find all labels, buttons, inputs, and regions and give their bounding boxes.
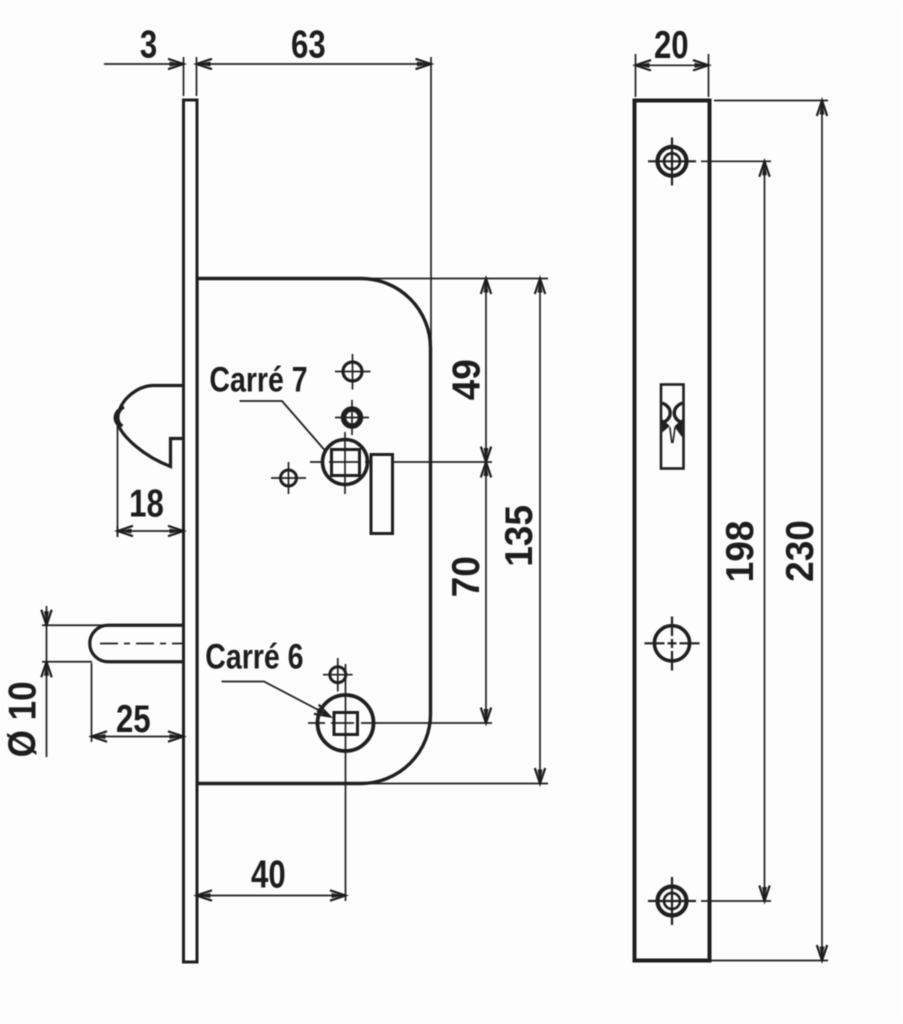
dimension 40	[197, 895, 346, 897]
svg-text:198: 198	[719, 521, 762, 583]
dim 18 arrows	[118, 526, 134, 536]
extension line bottom right (body bottom edge extended)	[362, 783, 548, 785]
upper follower horizontal centerline	[310, 461, 492, 463]
dimension 63	[430, 57, 432, 350]
screw hole bottom inner circle	[664, 893, 680, 909]
lower follower square hole	[334, 713, 358, 735]
svg-text:25: 25	[116, 698, 151, 741]
screw hole bottom crosshair	[671, 877, 673, 925]
round deadbolt (side view)	[90, 625, 184, 662]
bolt guide rectangle	[371, 455, 393, 534]
dimension 18	[117, 526, 119, 537]
svg-text:135: 135	[498, 505, 541, 567]
svg-text:20: 20	[654, 24, 689, 67]
screw hole middle crosshair	[671, 617, 673, 671]
dim 49 arrows	[481, 279, 491, 295]
lock body	[197, 279, 431, 784]
fixing hole top cross	[352, 354, 354, 390]
dimension 198	[701, 160, 771, 162]
dimension 3	[183, 57, 185, 96]
dimension 135 line	[539, 279, 541, 784]
faceplate (front view)	[635, 101, 710, 961]
leader line Carre 7	[240, 401, 326, 451]
svg-text:18: 18	[129, 482, 164, 525]
leader line Carre 6	[222, 682, 327, 715]
RIGHT VIEW	[635, 54, 829, 961]
dim 40 arrows	[197, 890, 213, 900]
svg-text:3: 3	[140, 23, 157, 66]
fixing hole middle circle	[344, 409, 361, 426]
dimension 230	[714, 100, 828, 102]
dim 10 arrows (outside)	[41, 610, 51, 626]
screw hole top inner circle	[664, 153, 680, 169]
fixing hole top circle	[343, 362, 362, 381]
fixing hole left circle	[281, 470, 297, 486]
latch cutout left crescent	[662, 403, 670, 423]
dim 63 right arrow	[416, 59, 432, 69]
fixing hole left cross	[288, 462, 290, 494]
deadbolt centerline	[100, 643, 192, 645]
svg-text:Carré 7: Carré 7	[209, 360, 307, 399]
screw hole bottom outer circle	[658, 887, 687, 916]
dimension 49 and 70 line	[485, 279, 487, 724]
svg-text:70: 70	[445, 556, 488, 597]
latch bolt (side view)	[115, 386, 184, 467]
svg-text:230: 230	[779, 520, 822, 582]
dimension 20	[635, 54, 637, 97]
lower follower vertical centerline + extension to 40 dim	[345, 664, 347, 901]
extension line top right (body top edge extended)	[362, 278, 548, 280]
latch nose inner arc	[118, 407, 124, 426]
latch cutout funnel right line	[673, 428, 675, 444]
svg-text:49: 49	[446, 359, 489, 400]
lower follower circle (Carre 6)	[318, 695, 374, 751]
upper follower circle (Carre 7)	[323, 440, 368, 485]
dim 70 arrows	[481, 462, 491, 478]
dim 198 arrows	[759, 161, 769, 177]
dim 230 arrows	[817, 101, 827, 117]
latch cutout right wedge	[674, 419, 682, 438]
svg-text:40: 40	[251, 853, 286, 896]
faceplate (side view)	[184, 100, 198, 962]
leader Carre 6 arrowhead	[314, 705, 333, 721]
dim 135 arrows	[535, 279, 545, 295]
small hole above lower follower cross	[337, 658, 339, 692]
latch cutout left wedge	[662, 419, 670, 433]
svg-text:Carré 6: Carré 6	[205, 637, 303, 676]
dim 20 arrows	[636, 60, 652, 70]
dimension 10 (diameter)	[42, 624, 105, 626]
upper follower vertical centerline	[344, 432, 346, 494]
dim 3 arrows	[168, 59, 184, 69]
arrowheads	[41, 59, 545, 901]
svg-text:63: 63	[291, 23, 326, 66]
dim 25 arrows	[92, 731, 108, 741]
svg-text:Ø 10: Ø 10	[0, 681, 44, 757]
latch cutout funnel left line	[670, 427, 672, 443]
dimension 25	[91, 663, 93, 742]
lower follower horizontal centerline	[308, 722, 492, 724]
upper follower square hole	[332, 450, 360, 476]
latch cutout right crescent	[674, 403, 682, 423]
screw hole middle circle	[654, 626, 689, 661]
fixing hole middle cross	[351, 400, 353, 435]
latch nose extension line	[117, 424, 119, 537]
screw hole top outer circle	[658, 147, 687, 176]
latch cutout rectangle	[661, 385, 684, 469]
screw hole top crosshair	[671, 138, 673, 186]
small hole above lower follower circle	[330, 667, 346, 683]
